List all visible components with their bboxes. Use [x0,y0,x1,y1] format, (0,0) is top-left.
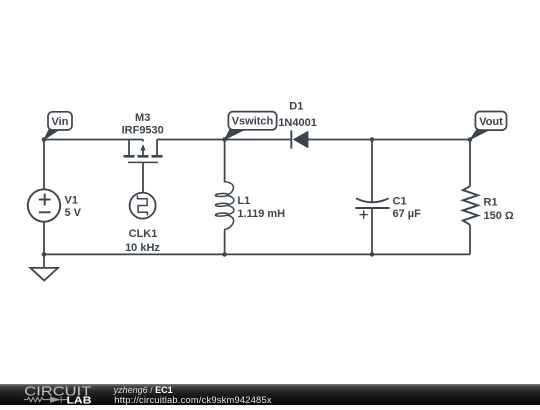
svg-text:V1: V1 [65,194,78,206]
wire MOSFET right to Vswitch node to diode [157,139,291,141]
svg-text:Vout: Vout [479,116,503,128]
footer url line [114,395,271,405]
svg-text:67 µF: 67 µF [393,208,422,220]
wire Vin node to MOSFET left [44,139,143,141]
svg-text:10 kHz: 10 kHz [125,242,160,254]
wire Vswitch node down to L1 top [224,140,226,183]
svg-text:1.119 mH: 1.119 mH [237,208,285,220]
svg-text:1N4001: 1N4001 [278,117,317,129]
footer author line [114,386,173,395]
node label Vswitch [225,112,277,140]
wire C1 bottom plate to bottom rail [371,208,373,254]
clock source CLK1 [130,193,156,219]
wire C1 node down to C1 top plate [371,140,373,203]
wire V1 bottom to ground node [43,222,45,255]
wire L1 bottom to bottom rail [224,230,226,254]
node C1 top junction [370,137,375,142]
wire Vin node down to V1 top [43,140,45,190]
transistor M3 (PMOS IRF9530) [124,140,163,193]
svg-text:LAB: LAB [67,395,92,405]
node label Vout [470,112,507,140]
footer bar [0,384,540,405]
diode D1 [291,130,308,148]
svg-text:M3: M3 [135,112,150,124]
ground [30,268,58,281]
resistor R1 [463,186,478,225]
wire diode to C1 node to Vout node [308,139,470,141]
svg-text:Vin: Vin [52,116,69,128]
svg-text:IRF9530: IRF9530 [122,125,164,137]
wire R1 bottom to bottom rail [469,225,471,255]
node Vswitch junction [222,137,227,142]
wire ground node down to ground symbol [43,254,45,268]
svg-text:L1: L1 [237,195,250,207]
svg-text:D1: D1 [289,101,303,113]
svg-text:C1: C1 [393,195,407,207]
svg-text:CLK1: CLK1 [129,228,158,240]
node label Vin [44,112,72,140]
capacitor C1 (polarized) [355,198,389,218]
CircuitLab logo [0,384,110,405]
wire Vout node down to R1 top [469,140,471,187]
node C1 bottom junction [370,252,375,257]
voltage source V1 [28,189,60,221]
node Vout junction [468,137,473,142]
svg-text:R1: R1 [484,197,498,209]
node Vin junction [42,137,47,142]
inductor L1 [215,182,234,231]
node L1 bottom junction [222,252,227,257]
node ground junction [42,252,47,257]
svg-text:150 Ω: 150 Ω [484,210,514,222]
svg-text:Vswitch: Vswitch [232,116,274,128]
svg-text:5 V: 5 V [65,207,82,219]
wire bottom rail [44,253,470,255]
